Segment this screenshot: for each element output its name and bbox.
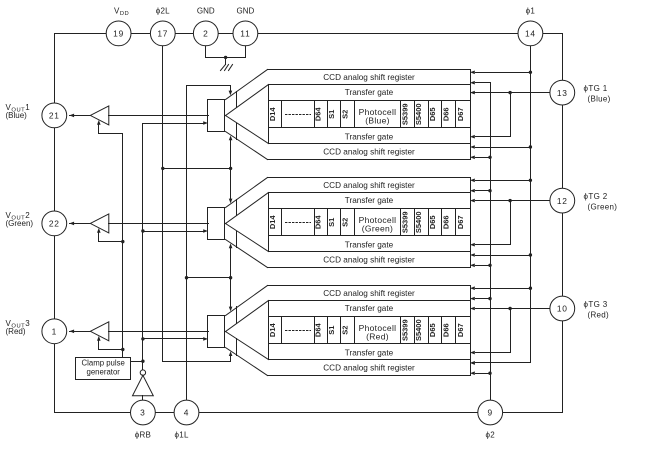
wire phiRB bus (142, 124, 144, 370)
svg-text:(Blue): (Blue) (588, 94, 611, 103)
svg-text:Transfer gate: Transfer gate (345, 241, 394, 250)
output stage rect channel 2 (208, 208, 225, 240)
svg-text:GND: GND (237, 7, 255, 16)
svg-text:S1: S1 (327, 218, 336, 227)
photocell row cells channel 2 (282, 209, 456, 236)
junction clamp ch2 (121, 240, 124, 243)
wire amp2 output to pin (69, 222, 90, 226)
svg-text:21: 21 (49, 111, 60, 121)
ground symbol (221, 65, 233, 71)
op-amp buffer A1 (90, 106, 109, 125)
svg-text:S1: S1 (327, 326, 336, 335)
svg-text:3: 3 (140, 408, 145, 418)
junction phi2 bus (488, 264, 491, 267)
junction phi1 bus (529, 145, 532, 148)
junction connector 2-3 (229, 276, 232, 279)
wire clamp box input (131, 361, 143, 363)
svg-text:generator: generator (87, 367, 121, 376)
svg-text:D67: D67 (456, 323, 465, 337)
label ϕTG 3 (584, 300, 610, 320)
svg-text:(Blue): (Blue) (6, 111, 28, 120)
label clamp pulse generator (82, 358, 125, 376)
wire phi2 row lower CCD channel 2 (470, 264, 491, 268)
junction phi1 bus (529, 179, 532, 182)
svg-text:12: 12 (557, 196, 568, 206)
pin 10 phiTG3 (550, 296, 575, 321)
pin 3 phiRB (131, 400, 156, 425)
svg-text:19: 19 (113, 29, 124, 39)
svg-text:D64: D64 (314, 107, 323, 122)
wire connector ch1-ch2 (229, 136, 233, 204)
svg-text:D66: D66 (442, 107, 451, 121)
dotted ellipsis cell channel 1 (286, 114, 311, 116)
label Photocell (Red) channel 3 (359, 323, 397, 342)
svg-text:Clamp pulse: Clamp pulse (82, 358, 125, 367)
pin 11 GND (233, 21, 258, 46)
pin 1 VOUT3 (42, 319, 67, 344)
wire phi2 row upper CCD channel 1 (470, 81, 491, 85)
junction connector 1-2 (229, 167, 232, 170)
svg-text:D66: D66 (442, 215, 451, 229)
svg-text:S5400: S5400 (414, 103, 423, 125)
wire phi2 row upper CCD channel 2 (470, 189, 491, 193)
svg-text:S5400: S5400 (414, 319, 423, 341)
wire phiTG2 row upper (470, 199, 550, 203)
wire amp1 output to pin (69, 114, 90, 118)
junction phiRB clamp-box tap (141, 360, 144, 363)
pin 17 phi2L (150, 21, 175, 46)
svg-text:CCD analog shift register: CCD analog shift register (323, 256, 415, 265)
svg-text:(Red): (Red) (588, 310, 610, 319)
junction phiRB ch2 (141, 229, 144, 232)
svg-text:D14: D14 (268, 215, 277, 230)
svg-text:(Red): (Red) (6, 327, 26, 336)
channel 1 (Blue) CCD block outline (226, 70, 471, 160)
pin 4 phi1L (174, 400, 199, 425)
wire phi1 bus (470, 46, 531, 365)
svg-text:ϕTG 1: ϕTG 1 (584, 84, 608, 93)
junction phiRB ch3 (141, 337, 144, 340)
junction phi1 bus (529, 253, 532, 256)
clamp pulse generator box (76, 358, 131, 380)
wire left rail (54, 34, 56, 413)
svg-text:Transfer gate: Transfer gate (345, 304, 394, 313)
wire right TG pin line (562, 34, 564, 413)
svg-text:S2: S2 (341, 326, 350, 335)
junction phi2L branch ch1-ch2 (161, 167, 164, 170)
pin 22 VOUT2 (42, 211, 67, 236)
wire amp3 output to pin (69, 330, 90, 334)
pin 13 phiTG1 (550, 80, 575, 105)
wire rect3 to amp3 input (109, 331, 209, 333)
wire phi2 row upper CCD channel 3 (470, 297, 491, 301)
svg-text:2: 2 (203, 29, 208, 39)
wire phi1 row upper CCD channel 1 (470, 71, 531, 75)
svg-text:(Red): (Red) (366, 332, 389, 342)
svg-text:CCD analog shift register: CCD analog shift register (323, 181, 415, 190)
svg-text:13: 13 (557, 88, 568, 98)
wire clamp bus (122, 134, 124, 358)
svg-text:CCD analog shift register: CCD analog shift register (323, 73, 415, 82)
svg-text:S2: S2 (341, 218, 350, 227)
svg-text:10: 10 (557, 304, 568, 314)
wire GND leads (206, 46, 246, 65)
svg-text:(Green): (Green) (362, 224, 393, 234)
wire phi2 bus (490, 83, 492, 401)
svg-text:ϕ2L: ϕ2L (156, 7, 170, 16)
wire rect2 to amp2 input (109, 223, 209, 225)
pin 21 VOUT1 (42, 103, 67, 128)
svg-text:S5399: S5399 (400, 103, 409, 125)
svg-text:D65: D65 (428, 215, 437, 229)
svg-text:ϕ1L: ϕ1L (175, 431, 189, 440)
label VOUT3 (6, 319, 31, 336)
label ϕTG 1 (584, 84, 611, 104)
wire phi2 row lower CCD channel 1 (470, 156, 491, 160)
junction phi2 bus (488, 156, 491, 159)
wire bottom rail (55, 412, 563, 414)
svg-text:D64: D64 (314, 215, 323, 230)
svg-text:S5400: S5400 (414, 211, 423, 233)
pin 12 phiTG2 (550, 188, 575, 213)
svg-text:4: 4 (184, 408, 189, 418)
photocell row cells channel 3 (282, 317, 456, 344)
label Photocell (Green) channel 2 (359, 215, 397, 234)
svg-text:(Green): (Green) (6, 219, 34, 228)
svg-text:S1: S1 (327, 110, 336, 119)
svg-text:D67: D67 (456, 215, 465, 229)
channel 3 (Red) CCD block outline (226, 286, 471, 376)
wire rect1 to amp1 input (109, 115, 209, 117)
label ϕTG 2 (584, 192, 618, 212)
wire top rail (55, 33, 563, 35)
op-amp buffer A3 (90, 322, 109, 341)
wire clamp feedback amp3 (97, 336, 123, 350)
junction phi1L branch ch2-ch3 (185, 276, 188, 279)
svg-text:D64: D64 (314, 322, 323, 337)
junction phi1 bus (529, 71, 532, 74)
svg-text:S5399: S5399 (400, 211, 409, 233)
op-amp buffer A2 (90, 214, 109, 233)
svg-text:ϕ2: ϕ2 (485, 431, 495, 440)
wire phi2 row lower CCD channel 3 (470, 371, 491, 375)
junction phi1 bus (529, 287, 532, 290)
wire phiRB row into rect1 (143, 121, 209, 125)
dotted ellipsis cell channel 3 (286, 330, 311, 332)
svg-text:D65: D65 (428, 323, 437, 337)
svg-text:Transfer gate: Transfer gate (345, 196, 394, 205)
svg-text:Transfer gate: Transfer gate (345, 133, 394, 142)
channel 2 (Green) CCD block outline (226, 178, 471, 268)
label VOUT1 (6, 103, 31, 120)
svg-text:S5399: S5399 (400, 319, 409, 341)
wire phiTG1 row lower (470, 93, 511, 139)
svg-text:D65: D65 (428, 107, 437, 121)
junction phiTG1 (508, 91, 511, 94)
svg-text:ϕTG 2: ϕTG 2 (584, 192, 608, 201)
svg-text:9: 9 (487, 408, 492, 418)
svg-text:CCD analog shift register: CCD analog shift register (323, 148, 415, 157)
wire phi1 row upper CCD channel 3 (470, 286, 531, 290)
svg-text:(Blue): (Blue) (365, 116, 389, 126)
svg-text:(Green): (Green) (588, 202, 618, 211)
wire phi1L branch to connector 2-3 (187, 277, 231, 279)
wire phiRB row into rect3 (143, 337, 209, 341)
wire phiTG1 row upper (470, 91, 550, 95)
inverter on phiRB (133, 370, 154, 401)
svg-text:ϕ1: ϕ1 (526, 7, 536, 16)
junction GND (224, 56, 227, 59)
junction phi2 bus (488, 189, 491, 192)
dotted ellipsis cell channel 2 (286, 222, 311, 224)
photocell row cells channel 1 (282, 101, 456, 128)
junction phiTG2 (508, 199, 511, 202)
svg-text:Transfer gate: Transfer gate (345, 88, 394, 97)
wire phi1 row lower CCD channel 1 (470, 145, 531, 149)
wire phi1 row lower CCD channel 2 (470, 253, 531, 257)
svg-text:CCD analog shift register: CCD analog shift register (323, 363, 415, 372)
wire phiTG3 row lower (470, 309, 511, 355)
svg-text:17: 17 (157, 29, 168, 39)
wire clamp feedback amp2 (97, 228, 123, 242)
wire phi1L bus (187, 86, 233, 401)
label VOUT2 (6, 211, 34, 228)
svg-text:D67: D67 (456, 107, 465, 121)
junction clamp ch3 (121, 348, 124, 351)
wire phiTG3 row upper (470, 307, 550, 311)
svg-text:22: 22 (49, 219, 60, 229)
svg-text:1: 1 (52, 327, 57, 337)
wire phi2L branch to connector 1-2 (163, 168, 231, 170)
wire pin 13 to TG rows (471, 92, 550, 94)
pin 14 phi1 (518, 21, 543, 46)
wire clamp feedback amp1 (97, 120, 123, 134)
wire phiTG2 row lower (470, 201, 511, 247)
junction phiTG3 (508, 307, 511, 310)
svg-text:CCD analog shift register: CCD analog shift register (323, 289, 415, 298)
pin 19 VDD (106, 21, 131, 46)
svg-text:D14: D14 (268, 107, 277, 122)
svg-text:GND: GND (197, 7, 215, 16)
svg-text:ϕTG 3: ϕTG 3 (584, 300, 608, 309)
wire phi1 row lower CCD channel 3 (470, 361, 531, 365)
svg-text:11: 11 (240, 29, 250, 39)
wire connector ch2-ch3 (229, 243, 233, 311)
junction phi2 bus (488, 297, 491, 300)
wire phi2L bus (163, 46, 233, 362)
wire phi1 row upper CCD channel 2 (470, 179, 531, 183)
svg-text:S2: S2 (341, 110, 350, 119)
wire phiRB row into rect2 (143, 229, 209, 233)
svg-text:D14: D14 (268, 322, 277, 337)
svg-text:14: 14 (525, 29, 536, 39)
output stage rect channel 1 (208, 100, 225, 132)
pin 2 GND (193, 21, 218, 46)
label Photocell (Blue) channel 1 (359, 107, 397, 126)
output stage rect channel 3 (208, 316, 225, 348)
svg-text:D66: D66 (442, 323, 451, 337)
svg-text:Transfer gate: Transfer gate (345, 349, 394, 358)
pin 9 phi2 (478, 400, 503, 425)
svg-text:ϕRB: ϕRB (135, 431, 151, 440)
junction phi2 bus (488, 372, 491, 375)
